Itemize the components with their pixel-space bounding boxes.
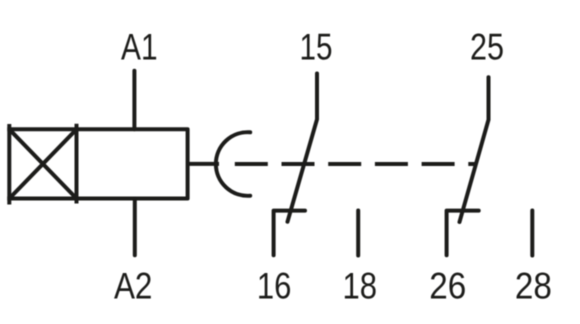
svg-text:28: 28 xyxy=(515,266,552,307)
svg-text:25: 25 xyxy=(470,26,504,67)
contact lever 25 xyxy=(460,77,489,222)
wire A1 xyxy=(132,71,136,130)
svg-text:18: 18 xyxy=(343,266,378,307)
svg-text:A2: A2 xyxy=(114,266,153,307)
delay actuator arc (half-moon) xyxy=(216,132,250,196)
terminal 16 wire xyxy=(274,211,305,256)
terminal 28 wire xyxy=(530,211,534,256)
wire A2 xyxy=(133,199,137,256)
coil K1 body rectangle xyxy=(77,129,188,198)
contact lever 15 xyxy=(288,74,318,222)
svg-text:15: 15 xyxy=(300,26,333,67)
svg-text:16: 16 xyxy=(257,266,292,307)
dashed mechanical link xyxy=(235,162,475,166)
terminal 18 wire xyxy=(356,211,360,256)
wire coil to delay symbol xyxy=(188,162,219,166)
coil K1 X-box (left square with cross) xyxy=(7,124,78,205)
svg-text:26: 26 xyxy=(429,266,466,307)
svg-text:A1: A1 xyxy=(121,26,158,67)
terminal 26 wire xyxy=(447,211,479,256)
